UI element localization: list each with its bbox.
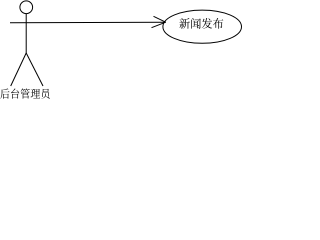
actor label text 后台管理员 — [0, 88, 49, 98]
actor head — [20, 1, 33, 14]
actor arms / association line — [10, 21, 166, 24]
arrowhead upper barb — [154, 16, 166, 22]
actor right leg — [26, 53, 43, 86]
use case ellipse — [163, 10, 242, 43]
use case label text 新闻发布 — [179, 18, 223, 29]
actor body — [25, 14, 27, 53]
actor left leg — [11, 53, 27, 86]
arrowhead lower barb — [152, 22, 166, 28]
